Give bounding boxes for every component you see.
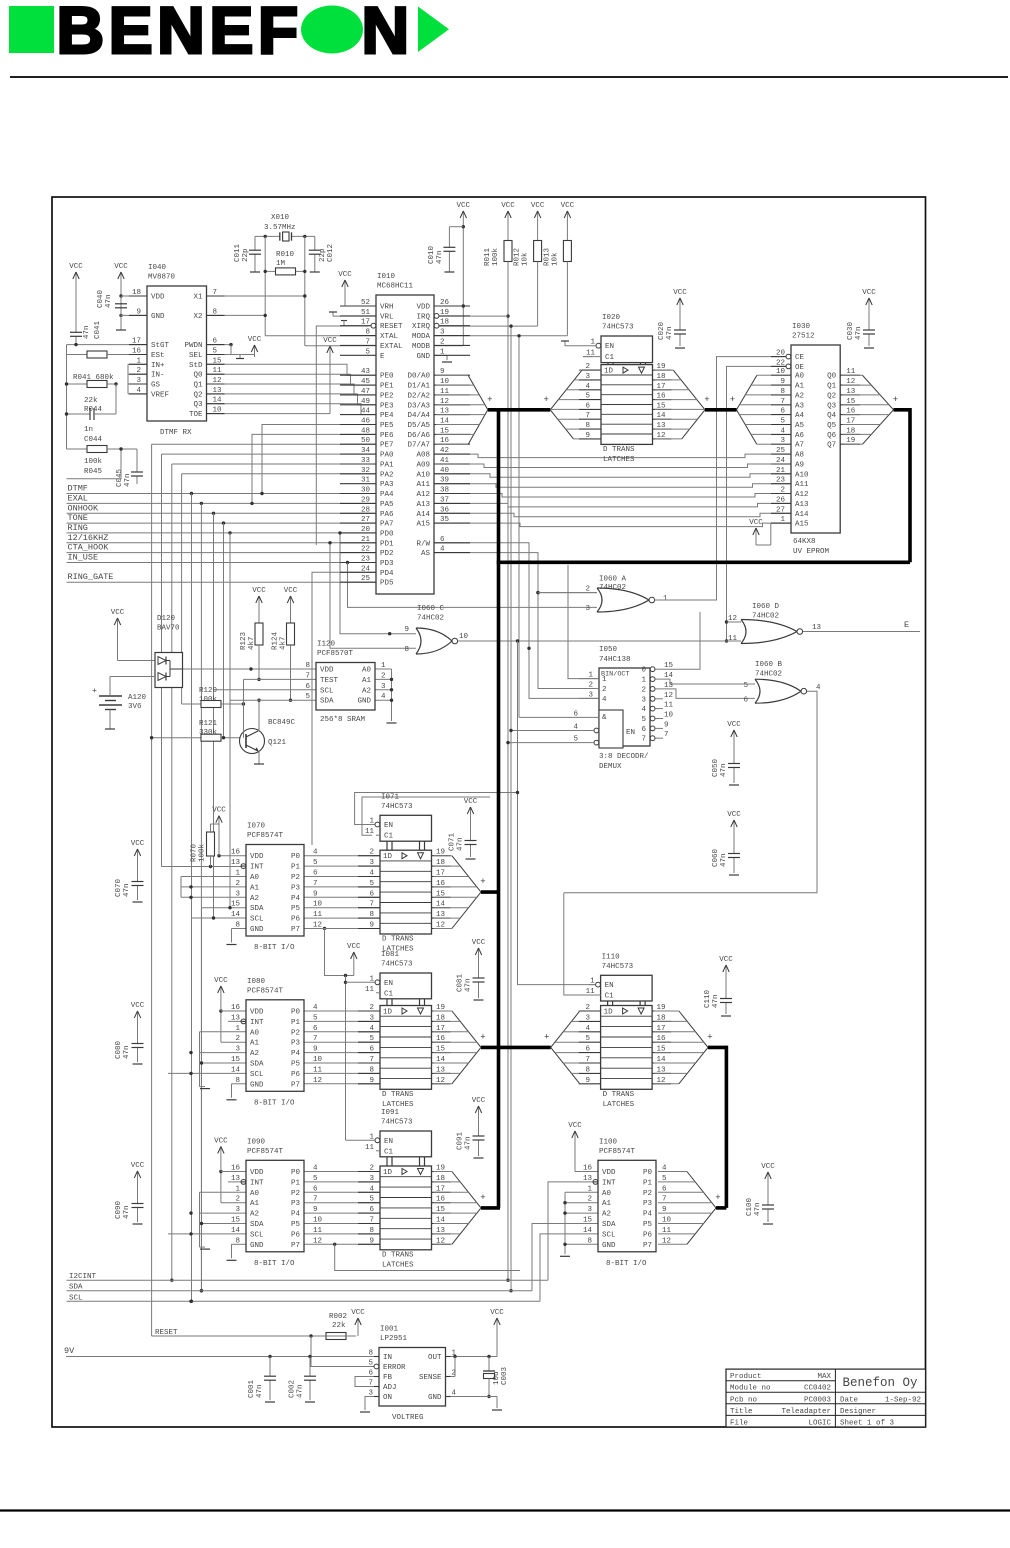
svg-text:2: 2 bbox=[588, 682, 593, 690]
svg-text:P1: P1 bbox=[291, 864, 301, 872]
svg-text:3.57MHz: 3.57MHz bbox=[264, 224, 296, 232]
svg-text:47n: 47n bbox=[754, 1202, 762, 1216]
svg-text:A15: A15 bbox=[416, 521, 430, 529]
svg-text:3:8 DECODR/: 3:8 DECODR/ bbox=[599, 753, 649, 761]
svg-text:100k: 100k bbox=[492, 247, 500, 266]
svg-text:Product: Product bbox=[730, 1373, 762, 1381]
svg-text:DTMF: DTMF bbox=[68, 484, 88, 494]
svg-text:20: 20 bbox=[776, 350, 786, 358]
svg-text:15: 15 bbox=[664, 662, 674, 670]
svg-text:A12: A12 bbox=[416, 491, 430, 499]
svg-text:ON: ON bbox=[383, 1394, 392, 1402]
svg-text:100k: 100k bbox=[84, 458, 103, 466]
svg-text:PD0: PD0 bbox=[380, 530, 394, 538]
svg-text:C010: C010 bbox=[428, 245, 436, 264]
svg-text:10: 10 bbox=[664, 712, 674, 720]
svg-text:A08: A08 bbox=[416, 452, 430, 460]
svg-text:MODB: MODB bbox=[412, 343, 431, 351]
svg-text:PD2: PD2 bbox=[380, 550, 394, 558]
svg-text:8-BIT I/O: 8-BIT I/O bbox=[606, 1260, 647, 1268]
svg-text:47n: 47n bbox=[465, 1136, 473, 1150]
svg-text:CTA_HOOK: CTA_HOOK bbox=[68, 543, 110, 553]
svg-text:2: 2 bbox=[602, 686, 607, 694]
svg-text:R070: R070 bbox=[191, 843, 199, 862]
svg-text:1D: 1D bbox=[604, 1009, 614, 1017]
svg-text:2: 2 bbox=[440, 338, 445, 346]
svg-text:47n: 47n bbox=[105, 294, 113, 308]
svg-text:C020: C020 bbox=[658, 321, 666, 340]
svg-text:P5: P5 bbox=[291, 1221, 301, 1229]
svg-text:74HC573: 74HC573 bbox=[602, 963, 634, 971]
svg-text:P7: P7 bbox=[291, 926, 300, 934]
svg-text:RING: RING bbox=[68, 523, 88, 533]
svg-text:3: 3 bbox=[136, 377, 141, 385]
svg-text:VCC: VCC bbox=[248, 336, 262, 344]
svg-text:P5: P5 bbox=[291, 905, 301, 913]
svg-text:VCC: VCC bbox=[111, 609, 125, 617]
svg-text:ESt: ESt bbox=[151, 352, 165, 360]
svg-text:P6: P6 bbox=[291, 916, 301, 924]
svg-text:64KX8: 64KX8 bbox=[793, 538, 816, 546]
svg-text:PE0: PE0 bbox=[380, 373, 394, 381]
svg-text:VCC: VCC bbox=[252, 587, 266, 595]
svg-text:2: 2 bbox=[585, 1004, 590, 1012]
svg-text:27: 27 bbox=[361, 516, 370, 524]
svg-text:Designer: Designer bbox=[840, 1408, 876, 1416]
svg-text:24: 24 bbox=[776, 457, 786, 465]
svg-text:48: 48 bbox=[361, 427, 370, 435]
svg-text:1D: 1D bbox=[383, 1009, 393, 1017]
svg-text:VCC: VCC bbox=[464, 798, 478, 806]
svg-text:P3: P3 bbox=[291, 1040, 301, 1048]
svg-text:D TRANS: D TRANS bbox=[603, 1091, 635, 1099]
svg-text:12: 12 bbox=[213, 377, 222, 385]
svg-text:74HC573: 74HC573 bbox=[381, 803, 413, 811]
svg-text:EN: EN bbox=[605, 982, 614, 990]
svg-text:C012: C012 bbox=[327, 244, 335, 262]
svg-text:5: 5 bbox=[585, 1035, 590, 1043]
svg-text:E: E bbox=[380, 353, 385, 361]
svg-text:+: + bbox=[543, 395, 548, 405]
svg-text:6: 6 bbox=[213, 338, 218, 346]
svg-text:P3: P3 bbox=[291, 884, 301, 892]
svg-text:CC0402: CC0402 bbox=[804, 1385, 831, 1393]
svg-text:5: 5 bbox=[743, 682, 748, 690]
svg-text:+: + bbox=[92, 687, 97, 696]
svg-text:25: 25 bbox=[776, 447, 786, 455]
svg-text:8-BIT I/O: 8-BIT I/O bbox=[254, 944, 295, 952]
svg-text:A0: A0 bbox=[250, 874, 260, 882]
svg-text:VCC: VCC bbox=[323, 337, 337, 345]
svg-text:P4: P4 bbox=[643, 1211, 653, 1219]
svg-text:MC68HC11: MC68HC11 bbox=[377, 283, 414, 291]
svg-text:46: 46 bbox=[361, 418, 371, 426]
svg-text:PCF8570T: PCF8570T bbox=[317, 650, 354, 658]
svg-text:11: 11 bbox=[664, 702, 674, 710]
svg-text:16: 16 bbox=[132, 348, 142, 356]
svg-text:D6/A6: D6/A6 bbox=[407, 432, 430, 440]
svg-text:2: 2 bbox=[235, 880, 240, 888]
svg-text:47n: 47n bbox=[465, 978, 473, 992]
svg-text:Q6: Q6 bbox=[827, 432, 837, 440]
svg-text:8: 8 bbox=[365, 329, 370, 337]
svg-text:I071: I071 bbox=[381, 793, 400, 801]
svg-text:A0: A0 bbox=[250, 1190, 260, 1198]
svg-text:IN_USE: IN_USE bbox=[68, 553, 99, 563]
svg-text:8: 8 bbox=[213, 308, 218, 316]
svg-text:3: 3 bbox=[588, 691, 593, 699]
svg-text:A2: A2 bbox=[250, 1050, 259, 1058]
svg-text:18: 18 bbox=[132, 289, 141, 297]
svg-text:9V: 9V bbox=[64, 1346, 75, 1356]
svg-text:X1: X1 bbox=[193, 294, 203, 302]
svg-text:5: 5 bbox=[585, 393, 590, 401]
svg-text:47n: 47n bbox=[123, 1045, 131, 1059]
svg-text:13: 13 bbox=[583, 1175, 593, 1183]
svg-text:AS: AS bbox=[421, 550, 431, 558]
svg-text:P4: P4 bbox=[291, 1211, 301, 1219]
svg-text:51: 51 bbox=[361, 309, 371, 317]
svg-text:EN: EN bbox=[605, 343, 614, 351]
svg-text:4: 4 bbox=[602, 696, 607, 704]
svg-text:3: 3 bbox=[780, 437, 785, 445]
svg-text:2: 2 bbox=[136, 367, 141, 375]
svg-text:6: 6 bbox=[641, 726, 646, 734]
svg-text:VCC: VCC bbox=[214, 1138, 228, 1146]
svg-text:14: 14 bbox=[583, 1227, 593, 1235]
svg-text:9: 9 bbox=[664, 721, 669, 729]
svg-text:100k: 100k bbox=[199, 843, 207, 862]
svg-text:74HC573: 74HC573 bbox=[381, 961, 413, 969]
svg-text:10k: 10k bbox=[551, 252, 559, 266]
svg-text:Sheet 1 of 3: Sheet 1 of 3 bbox=[840, 1419, 895, 1427]
svg-text:36: 36 bbox=[440, 506, 450, 514]
svg-text:+: + bbox=[480, 877, 485, 887]
svg-text:5: 5 bbox=[780, 418, 785, 426]
svg-text:15: 15 bbox=[213, 357, 223, 365]
svg-text:C071: C071 bbox=[449, 832, 457, 851]
svg-text:1: 1 bbox=[602, 676, 607, 684]
svg-text:PE3: PE3 bbox=[380, 402, 394, 410]
svg-text:VCC: VCC bbox=[719, 956, 733, 964]
svg-text:MV8870: MV8870 bbox=[148, 274, 176, 282]
svg-text:1: 1 bbox=[641, 677, 646, 685]
svg-text:I110: I110 bbox=[602, 953, 621, 961]
svg-text:I060 A: I060 A bbox=[599, 576, 627, 584]
svg-text:OE: OE bbox=[795, 364, 805, 372]
svg-text:VCC: VCC bbox=[501, 202, 515, 210]
svg-text:19: 19 bbox=[440, 309, 449, 317]
svg-text:15: 15 bbox=[231, 901, 241, 909]
svg-text:I070: I070 bbox=[247, 823, 266, 831]
svg-text:Q4: Q4 bbox=[827, 412, 837, 420]
svg-text:1n: 1n bbox=[84, 426, 93, 434]
svg-text:4: 4 bbox=[573, 724, 578, 732]
svg-text:OUT: OUT bbox=[428, 1354, 442, 1362]
svg-text:6: 6 bbox=[313, 870, 318, 878]
svg-text:37: 37 bbox=[440, 496, 449, 504]
svg-text:8: 8 bbox=[305, 662, 310, 670]
svg-text:GND: GND bbox=[250, 1242, 264, 1250]
svg-text:74HC02: 74HC02 bbox=[752, 613, 779, 621]
svg-text:6: 6 bbox=[313, 1025, 318, 1033]
svg-text:10: 10 bbox=[313, 1217, 323, 1225]
svg-text:+: + bbox=[893, 395, 898, 405]
svg-text:12: 12 bbox=[664, 692, 673, 700]
svg-text:4: 4 bbox=[641, 706, 646, 714]
svg-text:A13: A13 bbox=[795, 501, 809, 509]
svg-text:D TRANS: D TRANS bbox=[382, 1251, 414, 1259]
svg-text:9: 9 bbox=[313, 890, 318, 898]
svg-text:&: & bbox=[602, 714, 607, 722]
svg-text:7: 7 bbox=[213, 289, 218, 297]
svg-text:A09: A09 bbox=[416, 462, 430, 470]
svg-text:18: 18 bbox=[440, 319, 449, 327]
svg-text:5: 5 bbox=[313, 859, 318, 867]
svg-text:14: 14 bbox=[213, 397, 223, 405]
svg-text:GND: GND bbox=[250, 1081, 264, 1089]
svg-text:P0: P0 bbox=[291, 1009, 301, 1017]
svg-text:1D: 1D bbox=[383, 853, 393, 861]
svg-text:GND: GND bbox=[151, 313, 165, 321]
svg-text:7: 7 bbox=[664, 731, 669, 739]
svg-text:7: 7 bbox=[585, 412, 590, 420]
svg-text:27512: 27512 bbox=[792, 333, 815, 341]
svg-text:I020: I020 bbox=[602, 314, 621, 322]
svg-text:+: + bbox=[715, 1193, 720, 1203]
svg-text:R011: R011 bbox=[484, 247, 492, 266]
svg-text:1: 1 bbox=[369, 818, 374, 826]
svg-text:A1: A1 bbox=[250, 1200, 260, 1208]
svg-text:R002: R002 bbox=[329, 1313, 347, 1321]
svg-text:P1: P1 bbox=[291, 1019, 301, 1027]
svg-text:C1: C1 bbox=[605, 993, 615, 1001]
svg-text:N: N bbox=[362, 0, 410, 67]
svg-text:3: 3 bbox=[440, 329, 445, 337]
svg-text:I060 D: I060 D bbox=[752, 603, 780, 611]
svg-text:C060: C060 bbox=[712, 848, 720, 867]
svg-text:7: 7 bbox=[368, 1380, 373, 1388]
svg-text:10: 10 bbox=[313, 1056, 323, 1064]
svg-text:12/16KHZ: 12/16KHZ bbox=[68, 533, 109, 543]
svg-text:UV EPROM: UV EPROM bbox=[793, 548, 830, 556]
svg-text:A3: A3 bbox=[795, 402, 805, 410]
svg-text:C044: C044 bbox=[84, 436, 103, 444]
svg-text:DEMUX: DEMUX bbox=[599, 763, 622, 771]
svg-text:22p: 22p bbox=[242, 248, 250, 262]
svg-text:RESET: RESET bbox=[380, 323, 403, 331]
svg-text:6: 6 bbox=[305, 683, 310, 691]
svg-text:A14: A14 bbox=[795, 511, 809, 519]
svg-text:PD3: PD3 bbox=[380, 560, 394, 568]
svg-text:47n: 47n bbox=[124, 473, 132, 487]
svg-text:PCF8574T: PCF8574T bbox=[247, 1148, 284, 1156]
svg-text:P0: P0 bbox=[643, 1169, 653, 1177]
svg-text:PD4: PD4 bbox=[380, 570, 394, 578]
svg-text:R045: R045 bbox=[84, 468, 103, 476]
svg-text:3: 3 bbox=[235, 1206, 240, 1214]
svg-text:22: 22 bbox=[776, 359, 785, 367]
svg-text:I040: I040 bbox=[148, 264, 167, 272]
svg-text:13: 13 bbox=[231, 1175, 241, 1183]
svg-text:31: 31 bbox=[361, 477, 371, 485]
svg-text:5: 5 bbox=[368, 1360, 373, 1368]
svg-text:4: 4 bbox=[816, 684, 821, 692]
svg-text:VCC: VCC bbox=[131, 1162, 145, 1170]
svg-text:42: 42 bbox=[440, 447, 449, 455]
svg-text:8: 8 bbox=[235, 1237, 240, 1245]
svg-text:I060 B: I060 B bbox=[755, 661, 783, 669]
svg-text:1: 1 bbox=[235, 1025, 240, 1033]
svg-text:3: 3 bbox=[587, 1206, 592, 1214]
svg-text:1: 1 bbox=[587, 1185, 592, 1193]
svg-text:A15: A15 bbox=[795, 521, 809, 529]
svg-text:SDA: SDA bbox=[250, 1221, 264, 1229]
svg-text:8: 8 bbox=[368, 1350, 373, 1358]
svg-text:I091: I091 bbox=[381, 1109, 400, 1117]
svg-text:C100: C100 bbox=[746, 1197, 754, 1216]
svg-text:VCC: VCC bbox=[727, 811, 741, 819]
svg-text:PWDN: PWDN bbox=[184, 342, 202, 350]
svg-text:Title: Title bbox=[730, 1408, 753, 1416]
svg-text:6: 6 bbox=[313, 1185, 318, 1193]
svg-text:GS: GS bbox=[151, 382, 161, 390]
svg-text:C080: C080 bbox=[115, 1040, 123, 1059]
svg-text:35: 35 bbox=[440, 516, 450, 524]
svg-text:File: File bbox=[730, 1419, 748, 1427]
svg-text:3: 3 bbox=[235, 1046, 240, 1054]
svg-text:P7: P7 bbox=[643, 1242, 652, 1250]
svg-text:14: 14 bbox=[231, 1227, 241, 1235]
svg-text:D TRANS: D TRANS bbox=[382, 936, 414, 944]
svg-text:4: 4 bbox=[452, 1390, 457, 1398]
svg-text:27: 27 bbox=[776, 506, 785, 514]
svg-text:13: 13 bbox=[231, 859, 241, 867]
svg-text:8: 8 bbox=[404, 646, 409, 654]
svg-text:SCL: SCL bbox=[250, 916, 264, 924]
svg-text:49: 49 bbox=[361, 398, 370, 406]
svg-text:38: 38 bbox=[440, 487, 449, 495]
svg-text:TOE: TOE bbox=[189, 411, 203, 419]
svg-text:13: 13 bbox=[213, 387, 223, 395]
svg-text:EXTAL: EXTAL bbox=[380, 343, 403, 351]
svg-text:PE1: PE1 bbox=[380, 383, 394, 391]
svg-text:6: 6 bbox=[743, 697, 748, 705]
svg-text:PD1: PD1 bbox=[380, 540, 394, 548]
svg-text:5: 5 bbox=[573, 736, 578, 744]
svg-text:C1: C1 bbox=[384, 990, 394, 998]
svg-text:1M: 1M bbox=[276, 260, 286, 268]
svg-text:2: 2 bbox=[381, 672, 386, 680]
svg-text:D3/A3: D3/A3 bbox=[407, 402, 430, 410]
svg-text:A2: A2 bbox=[362, 687, 371, 695]
svg-text:X2: X2 bbox=[193, 313, 202, 321]
svg-text:I080: I080 bbox=[247, 978, 266, 986]
svg-text:VDD: VDD bbox=[250, 853, 264, 861]
svg-text:SDA: SDA bbox=[320, 698, 334, 706]
svg-text:3: 3 bbox=[641, 696, 646, 704]
svg-text:6: 6 bbox=[573, 710, 578, 718]
svg-text:ONHOOK: ONHOOK bbox=[68, 503, 100, 513]
svg-text:9: 9 bbox=[585, 1077, 590, 1085]
svg-text:P6: P6 bbox=[291, 1231, 301, 1239]
svg-text:6: 6 bbox=[440, 536, 445, 544]
svg-text:D4/A4: D4/A4 bbox=[407, 412, 430, 420]
svg-text:74HC02: 74HC02 bbox=[417, 615, 444, 623]
svg-text:23: 23 bbox=[361, 556, 371, 564]
svg-text:INT: INT bbox=[250, 864, 264, 872]
svg-text:1: 1 bbox=[235, 870, 240, 878]
svg-text:A2: A2 bbox=[795, 392, 804, 400]
svg-text:VCC: VCC bbox=[749, 519, 763, 527]
svg-text:47n: 47n bbox=[666, 326, 674, 340]
svg-text:7: 7 bbox=[305, 672, 310, 680]
svg-text:PA3: PA3 bbox=[380, 481, 394, 489]
svg-text:P3: P3 bbox=[291, 1200, 301, 1208]
svg-text:E: E bbox=[904, 620, 909, 630]
svg-text:11: 11 bbox=[365, 1144, 375, 1152]
svg-text:3: 3 bbox=[235, 890, 240, 898]
svg-text:A7: A7 bbox=[795, 442, 804, 450]
svg-text:Date: Date bbox=[840, 1396, 858, 1404]
svg-text:R124: R124 bbox=[272, 631, 280, 650]
svg-text:22k: 22k bbox=[332, 1322, 346, 1330]
svg-text:A5: A5 bbox=[795, 422, 805, 430]
svg-text:VREF: VREF bbox=[151, 391, 169, 399]
svg-text:28: 28 bbox=[361, 506, 370, 514]
svg-text:VRH: VRH bbox=[380, 304, 394, 312]
svg-text:D TRANS: D TRANS bbox=[603, 446, 635, 454]
svg-text:EN: EN bbox=[626, 729, 635, 737]
svg-text:11: 11 bbox=[365, 828, 375, 836]
svg-text:SDA: SDA bbox=[602, 1221, 616, 1229]
svg-text:3V6: 3V6 bbox=[128, 703, 142, 711]
svg-text:11: 11 bbox=[586, 988, 596, 996]
svg-text:0: 0 bbox=[641, 667, 646, 675]
svg-text:INT: INT bbox=[250, 1179, 264, 1187]
svg-text:VCC: VCC bbox=[131, 840, 145, 848]
svg-text:+: + bbox=[704, 395, 709, 405]
svg-text:74HC138: 74HC138 bbox=[599, 656, 631, 664]
svg-text:6: 6 bbox=[585, 1046, 590, 1054]
svg-text:C070: C070 bbox=[115, 878, 123, 897]
svg-text:SCL: SCL bbox=[250, 1231, 264, 1239]
svg-text:P2: P2 bbox=[291, 874, 300, 882]
svg-text:47n: 47n bbox=[720, 853, 728, 867]
svg-text:7: 7 bbox=[641, 736, 646, 744]
svg-text:5: 5 bbox=[641, 716, 646, 724]
svg-text:C003: C003 bbox=[501, 1366, 509, 1385]
svg-text:2: 2 bbox=[235, 1035, 240, 1043]
svg-text:Q3: Q3 bbox=[827, 402, 837, 410]
svg-text:6: 6 bbox=[368, 1370, 373, 1378]
svg-text:24: 24 bbox=[361, 565, 371, 573]
svg-text:P7: P7 bbox=[291, 1242, 300, 1250]
svg-text:Teleadapter: Teleadapter bbox=[781, 1408, 831, 1416]
svg-text:4: 4 bbox=[585, 1025, 590, 1033]
svg-text:25: 25 bbox=[361, 575, 371, 583]
svg-text:RING_GATE: RING_GATE bbox=[68, 572, 114, 582]
svg-text:VCC: VCC bbox=[490, 1309, 504, 1317]
svg-text:C090: C090 bbox=[115, 1200, 123, 1219]
svg-text:13: 13 bbox=[812, 624, 822, 632]
svg-text:14: 14 bbox=[231, 911, 241, 919]
svg-text:8: 8 bbox=[235, 922, 240, 930]
svg-text:VCC: VCC bbox=[561, 202, 575, 210]
svg-text:10: 10 bbox=[313, 901, 323, 909]
svg-text:P0: P0 bbox=[291, 1169, 301, 1177]
svg-text:8: 8 bbox=[585, 1066, 590, 1074]
